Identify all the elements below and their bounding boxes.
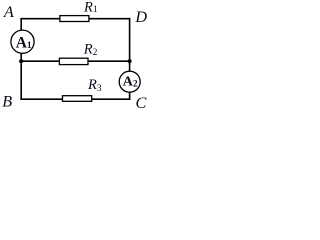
svg-text:D: D	[134, 8, 147, 26]
svg-text:B: B	[2, 92, 12, 110]
svg-text:A: A	[3, 3, 14, 21]
svg-text:C: C	[136, 94, 147, 110]
